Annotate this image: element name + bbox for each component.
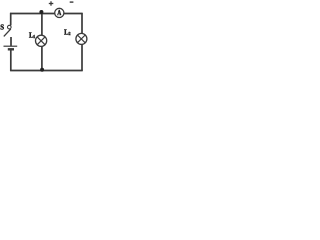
svg-text:A: A: [57, 10, 61, 17]
svg-text:2: 2: [69, 32, 71, 36]
svg-text:1: 1: [33, 35, 35, 39]
svg-text:S: S: [0, 25, 4, 32]
